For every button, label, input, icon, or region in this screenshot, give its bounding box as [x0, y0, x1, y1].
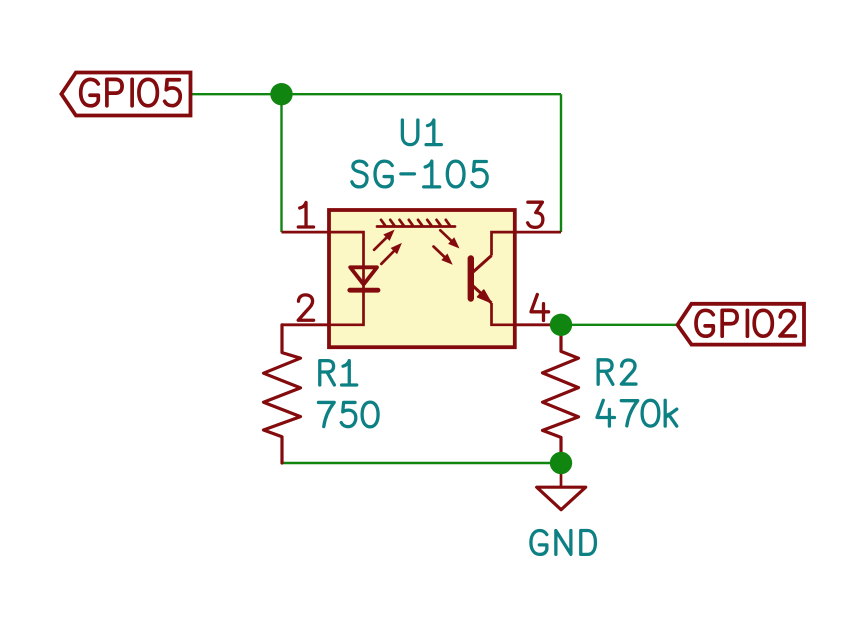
global label GPIO2 outline: [678, 304, 805, 345]
junction top at GPIO5 wire: [270, 83, 292, 105]
U1 value SG-105: [352, 161, 367, 187]
op-amp U1 body box: [329, 210, 515, 347]
wire bottom horizontal R1 to GND node: [282, 462, 561, 464]
ground net name GND: [531, 531, 547, 555]
ground symbol: [560, 463, 563, 487]
resistor R2: [543, 325, 579, 463]
U1 pin 4: [515, 323, 561, 326]
wire vertical right down to pin 3: [560, 94, 562, 232]
global label GPIO5 text: [81, 79, 99, 105]
global label GPIO2 text: [696, 310, 713, 336]
U1 pin 1: [282, 231, 330, 234]
junction at pin 4 node: [550, 314, 572, 336]
R2 value 470k: [597, 400, 614, 426]
LED emission arrow B: [381, 250, 395, 264]
U1 internal wire pin1 to LED: [329, 232, 364, 290]
global label GPIO5 outline: [61, 73, 190, 116]
U1 internal wire emitter to pin4: [492, 303, 515, 325]
resistor R1: [264, 325, 301, 463]
U1 pin 2: [282, 323, 329, 326]
wire top horizontal GPIO5 to corner: [191, 93, 562, 95]
U1 internal wire LED to pin2: [329, 290, 364, 325]
wire pin 4 to GPIO2: [561, 324, 678, 326]
U1 pin 3: [515, 231, 561, 234]
received light arrow D: [434, 247, 446, 259]
U1 internal wire pin3 to collector: [492, 232, 515, 255]
transistor Q collector diagonal: [473, 256, 492, 273]
junction at GND node: [550, 452, 572, 474]
transistor Q emitter diagonal with arrow: [473, 286, 492, 304]
R1 reference text: [320, 361, 335, 385]
pin number 4: [531, 295, 549, 321]
received light arrow C: [440, 230, 452, 242]
transistor Q base bar: [468, 259, 474, 299]
U1 light barrier hatched line: [377, 220, 455, 227]
LED cathode bar: [350, 288, 378, 293]
U1 reference text: [402, 120, 417, 145]
pin number 1: [298, 202, 313, 227]
LED emission arrow A: [374, 237, 388, 250]
pin number 2: [298, 295, 313, 320]
pin number 3: [528, 202, 543, 227]
wire vertical from junction down to pin 1: [280, 94, 282, 232]
R1 value 750: [318, 402, 334, 426]
LED D inside U1 (triangle): [350, 267, 377, 284]
R2 reference text: [598, 360, 613, 385]
